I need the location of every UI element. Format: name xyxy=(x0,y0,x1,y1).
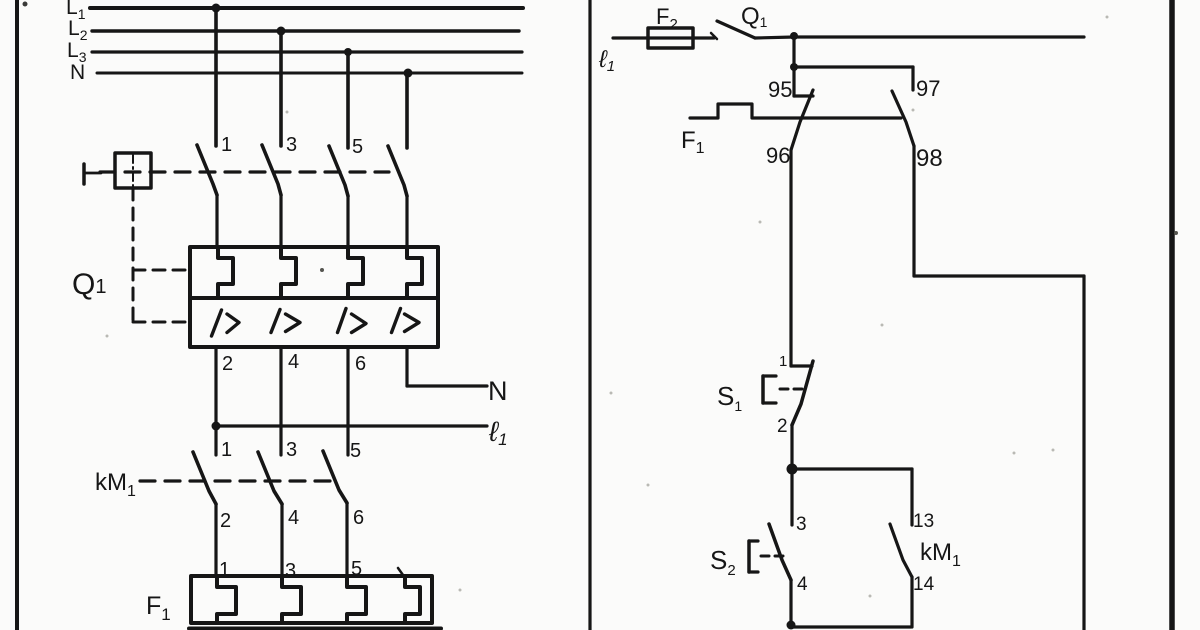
svg-text:3: 3 xyxy=(285,560,296,582)
svg-text:4: 4 xyxy=(797,574,808,595)
svg-text:N: N xyxy=(70,61,85,84)
svg-text:3: 3 xyxy=(286,134,297,156)
svg-text:95: 95 xyxy=(768,77,792,102)
svg-text:2: 2 xyxy=(777,416,788,437)
svg-text:3: 3 xyxy=(286,439,297,461)
svg-text:14: 14 xyxy=(913,574,935,595)
svg-text:98: 98 xyxy=(916,145,943,172)
svg-text:N: N xyxy=(488,376,508,406)
svg-text:4: 4 xyxy=(288,507,299,529)
svg-text:97: 97 xyxy=(916,76,940,101)
svg-text:1: 1 xyxy=(221,439,232,461)
svg-text:5: 5 xyxy=(351,558,362,580)
svg-text:1: 1 xyxy=(779,353,787,370)
svg-text:5: 5 xyxy=(352,136,363,158)
svg-text:2: 2 xyxy=(220,510,231,532)
svg-text:2: 2 xyxy=(222,353,233,375)
svg-text:13: 13 xyxy=(913,511,934,532)
svg-text:5: 5 xyxy=(350,440,361,462)
svg-text:6: 6 xyxy=(355,353,366,375)
svg-text:3: 3 xyxy=(796,514,807,535)
svg-text:4: 4 xyxy=(288,351,299,373)
svg-text:96: 96 xyxy=(766,143,790,168)
svg-text:1: 1 xyxy=(219,559,230,581)
svg-text:1: 1 xyxy=(221,134,232,156)
svg-text:6: 6 xyxy=(353,507,364,529)
